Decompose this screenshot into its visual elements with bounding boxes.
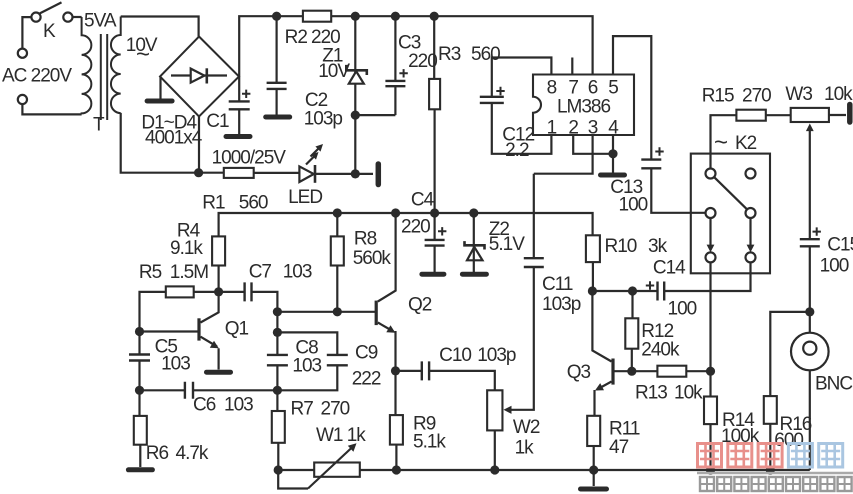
junction node N10 R10/Q3 collector — [588, 286, 597, 295]
capacitor C1 — [229, 101, 250, 109]
W3 wiper line down — [809, 128, 811, 239]
svg-text:103: 103 — [224, 395, 253, 416]
wire node Z1/C3 to C3 bottom — [355, 114, 395, 116]
junction node N13 BNC/R16 — [805, 307, 814, 316]
C4 plus sign — [438, 227, 446, 235]
resistor R2 — [303, 11, 331, 22]
C13 plus sign — [655, 147, 663, 155]
svg-text:8: 8 — [547, 78, 557, 99]
resistor R8 — [331, 236, 344, 265]
transformer T secondary winding — [111, 17, 121, 114]
junction node N5 C7/C8 — [273, 307, 282, 316]
Q3 base wire — [613, 370, 632, 372]
W1 wiper loop wire — [278, 470, 308, 489]
relay K2 left actuator line — [709, 218, 711, 248]
wire R6 to ground — [139, 445, 141, 467]
wire node N13 to BNC — [809, 312, 811, 333]
resistor R6 — [134, 416, 147, 445]
wire R13 to node N12 — [686, 370, 710, 372]
wire node N11 to R13 — [632, 370, 658, 372]
svg-text:LM386: LM386 — [557, 97, 611, 118]
svg-text:270: 270 — [742, 85, 771, 106]
wire C8 to node N7 — [276, 365, 278, 390]
junction node N8 C9 branch — [273, 328, 282, 337]
wire mid rail R4 to R10 — [219, 213, 593, 236]
zener Z2 triangle — [467, 247, 483, 260]
svg-text:C1: C1 — [206, 111, 229, 132]
relay K2 contact circle bottom-left — [706, 252, 716, 262]
op-amp U1 LM386 body — [533, 75, 634, 136]
Q1 emitter to ground — [218, 348, 220, 369]
relay K2 body — [691, 154, 770, 274]
ground Q1 emitter — [207, 370, 231, 375]
wire C12 bottom to pin1 — [492, 103, 552, 154]
wire node N12 to R14 — [709, 371, 711, 396]
wire pin2 to pin4 node — [573, 135, 613, 154]
Q1 collector wire — [201, 292, 219, 323]
svg-text:W2: W2 — [513, 417, 540, 438]
watermark underline — [697, 472, 853, 475]
potentiometer W1 body — [314, 463, 360, 477]
wire switch to upper AC terminal — [22, 17, 31, 48]
junction pin4 ground node — [608, 149, 617, 158]
wire R5 to node N4 — [140, 292, 166, 332]
LED triangle — [299, 166, 313, 182]
svg-text:R7: R7 — [291, 399, 314, 420]
svg-text:103p: 103p — [477, 345, 516, 366]
switch K contact circle left — [31, 13, 40, 22]
svg-text:R5: R5 — [139, 262, 162, 283]
resistor R9 — [390, 415, 403, 445]
wire bridge minus to ground — [159, 77, 161, 99]
svg-text:C9: C9 — [355, 343, 378, 364]
svg-text:K: K — [43, 21, 56, 42]
capacitor C15 — [800, 239, 820, 246]
junction bottom rail at R14 — [706, 465, 715, 474]
ground LM386 pin4 — [601, 173, 625, 178]
resistor R1 — [224, 168, 254, 178]
wire LED to node N2 — [316, 173, 355, 175]
wire node N5 to C8 — [276, 312, 278, 355]
junction node N2 LED output — [351, 169, 360, 178]
wire R11 to bottom rail — [593, 446, 595, 470]
resistor R15 — [736, 110, 765, 121]
svg-text:240k: 240k — [641, 340, 680, 361]
svg-text:R1: R1 — [202, 192, 225, 213]
svg-text:BNC: BNC — [815, 374, 852, 395]
capacitor C4 — [425, 240, 445, 246]
svg-text:R3: R3 — [438, 44, 461, 65]
svg-text:560k: 560k — [353, 248, 392, 269]
wire R7 to bottom rail — [277, 443, 279, 470]
wire C14 to relay pin lower right — [664, 262, 750, 291]
resistor R7 — [272, 411, 285, 443]
wire relay top-left pin to R15 — [711, 115, 737, 168]
wire C4 to ground — [434, 246, 436, 272]
wire C15 to node N13 — [809, 246, 811, 312]
junction C2 tap on top rail — [272, 12, 281, 21]
svg-text:R8: R8 — [354, 229, 377, 250]
potentiometer W2 body — [487, 390, 502, 430]
relay K2 right actuator line — [749, 218, 751, 248]
wire R1 to LED — [254, 172, 300, 174]
svg-text:R15: R15 — [702, 85, 734, 106]
wire node Z1/C3 down to node N2 — [354, 115, 356, 174]
svg-text:K2: K2 — [735, 133, 757, 154]
wire C2 to ground — [276, 89, 278, 115]
junction C4 tap on mid rail — [430, 208, 439, 217]
W3 wiper arrowhead — [806, 124, 814, 132]
svg-text:5: 5 — [608, 78, 618, 99]
svg-text:100: 100 — [668, 299, 697, 320]
wire pin3 to C11 — [534, 135, 593, 174]
resistor R10 — [586, 235, 600, 262]
svg-text:103p: 103p — [304, 109, 343, 130]
transistor Q1 base bar — [197, 318, 200, 340]
wire C7 to node N5 — [252, 292, 278, 312]
LED arrow 2 head — [315, 144, 323, 152]
junction C3 tap on top rail — [391, 12, 400, 21]
svg-text:1.5M: 1.5M — [170, 262, 208, 283]
svg-text:W1: W1 — [316, 425, 343, 446]
U1 pin 7 stub — [571, 58, 573, 75]
svg-text:6: 6 — [588, 78, 598, 99]
relay K2 contact circle top-left — [706, 169, 716, 179]
bridge rectifier D1-D4 diamond — [160, 37, 239, 117]
relay K2 contact circle top-right — [746, 169, 756, 179]
Q1 emitter wire — [201, 337, 218, 347]
capacitor C10 — [422, 361, 429, 380]
relay K2 left actuator arrowhead — [707, 245, 715, 253]
switch K lever — [40, 2, 62, 13]
svg-text:C7: C7 — [249, 262, 272, 283]
wire C13 to relay K2 pin — [651, 168, 705, 213]
junction bottom rail at R7/W1 — [274, 465, 283, 474]
svg-text:1k: 1k — [347, 425, 367, 446]
wire mid rail to C4 — [434, 213, 436, 240]
junction node N7 C6/C8/R7 — [273, 386, 282, 395]
wire node N6 to R6 — [138, 390, 140, 416]
svg-text:LED: LED — [288, 187, 322, 208]
Q2 emitter arrowhead — [386, 325, 395, 333]
svg-text:100: 100 — [619, 195, 648, 216]
wire W2 bottom to rail — [494, 430, 496, 470]
zener Z1 cathode bar with wings — [346, 65, 367, 75]
capacitor C9 — [327, 355, 348, 365]
capacitor C5 — [129, 355, 150, 361]
svg-text:C14: C14 — [653, 258, 686, 279]
wire mid rail corner down is part of rail; R10 box below — [592, 262, 594, 291]
capacitor C2 — [267, 83, 287, 89]
wire R8 top — [336, 213, 338, 236]
svg-text:3k: 3k — [648, 236, 668, 257]
junction node N4 Q1 base — [135, 327, 144, 336]
svg-text:220: 220 — [401, 216, 430, 237]
junction node N9 Q2 emitter — [391, 366, 400, 375]
wire pin8 to C12 top — [492, 58, 552, 97]
Q2 collector wire — [378, 213, 396, 302]
ground R6 — [128, 467, 152, 472]
svg-text:C10: C10 — [439, 345, 471, 366]
wire node N5 to Q2 base — [277, 311, 375, 313]
terminal output right edge — [847, 105, 853, 123]
junction R8 tap on mid rail — [333, 208, 342, 217]
wire R14 to bottom rail — [709, 424, 711, 470]
capacitor C7 — [245, 282, 252, 301]
junction Z2 tap on mid rail — [469, 208, 478, 217]
wire lower AC terminal to transformer primary bottom — [22, 104, 81, 114]
junction node N6 — [135, 386, 144, 395]
wire bridge AC2 down to node N1 — [198, 117, 200, 173]
svg-text:7: 7 — [568, 78, 578, 99]
resistor R3 — [429, 79, 440, 109]
junction R12 top — [628, 286, 637, 295]
wire W3 to output terminal — [829, 114, 846, 116]
AC input terminal upper — [18, 49, 27, 58]
junction node N12 R13/R14/relay — [706, 367, 715, 376]
bottom rail — [278, 469, 810, 471]
Q3 emitter arrowhead — [595, 383, 604, 390]
wire node N2 to terminal — [355, 173, 373, 175]
wire node N3 to C7 — [219, 291, 245, 293]
W2 wiper arrowhead — [504, 406, 512, 414]
resistor R14 — [704, 397, 717, 425]
potentiometer W3 body — [791, 108, 829, 122]
watermark glyphs line 1 — [698, 444, 843, 468]
LED arrow 1 head — [311, 152, 319, 160]
BNC connector outer circle — [791, 333, 829, 371]
bridge internal diode triangle — [191, 69, 205, 83]
wire node N9 to C10 — [396, 370, 422, 372]
svg-text:C15: C15 — [827, 234, 853, 255]
svg-text:Q2: Q2 — [408, 295, 432, 316]
svg-text:9.1k: 9.1k — [170, 238, 203, 259]
svg-text:T: T — [93, 115, 105, 136]
wire relay lower-left pin down to node N12 — [709, 262, 711, 371]
wire C5 to node N6 — [138, 361, 140, 391]
svg-text:~: ~ — [714, 129, 727, 156]
wire C3 down — [394, 86, 396, 115]
LED arrow 1 shaft — [306, 155, 316, 165]
Q3 emitter wire — [597, 382, 612, 390]
capacitor C3 — [385, 81, 405, 86]
wire top rail to C3 — [394, 16, 396, 81]
resistor R16 — [764, 396, 777, 424]
svg-text:47: 47 — [609, 437, 629, 458]
wire R12 to node N11 — [631, 349, 633, 372]
wire R9 to bottom rail — [395, 445, 397, 470]
wire node N4 to C5 — [138, 332, 140, 355]
svg-text:R13: R13 — [635, 383, 667, 404]
Q1 emitter arrowhead — [210, 341, 219, 349]
svg-text:2.2: 2.2 — [505, 140, 529, 161]
wire node N10 to C14 line — [592, 290, 657, 292]
wire node N7 to R7 — [276, 390, 278, 411]
terminal output near LED — [376, 164, 382, 185]
wire R15 to W3 — [766, 114, 791, 116]
svg-text:103: 103 — [292, 356, 321, 377]
wire R12 vertical — [631, 291, 633, 318]
junction bottom rail at R16 — [766, 465, 775, 474]
wire bridge plus up to top rail and to R2 — [239, 16, 303, 76]
wire top rail R2 to LM386 pin6 — [331, 16, 592, 74]
junction Q2 collector tap on mid rail — [391, 208, 400, 217]
svg-text:5.1V: 5.1V — [489, 234, 525, 255]
LED cathode bar — [314, 165, 317, 183]
wire R4 to node N3 — [218, 266, 220, 292]
C3 plus sign — [399, 69, 407, 77]
ground C1 — [226, 134, 250, 139]
resistor R4 — [212, 236, 225, 265]
wire node N1 to R1 — [199, 172, 224, 174]
svg-text:103: 103 — [161, 353, 190, 374]
svg-text:100: 100 — [820, 256, 849, 277]
svg-text:R6: R6 — [146, 443, 169, 464]
Q1 base wire — [140, 330, 200, 332]
Q2 emitter wire — [378, 323, 394, 332]
junction Z1 tap on top rail — [351, 12, 360, 21]
C14 plus sign — [646, 281, 654, 289]
junction bottom rail at R9 — [392, 465, 401, 474]
AC input terminal lower — [18, 95, 27, 104]
W1 wiper arrowhead — [348, 443, 357, 452]
wire mid rail to Z2 and down — [473, 213, 475, 272]
svg-text:4001x4: 4001x4 — [145, 128, 203, 149]
ground bridge — [147, 99, 172, 104]
BNC connector inner circle — [803, 342, 816, 355]
transistor Q2 base bar — [375, 301, 378, 326]
C12 plus sign — [496, 87, 504, 95]
resistor R13 — [657, 366, 686, 377]
svg-text:560: 560 — [471, 44, 500, 65]
resistor R5 — [166, 286, 194, 297]
W1 wiper diagonal — [308, 447, 353, 489]
wire C9 to node N7 — [277, 365, 337, 390]
svg-text:C11: C11 — [542, 274, 573, 295]
svg-text:220: 220 — [408, 51, 437, 72]
C1 plus sign — [242, 90, 250, 98]
svg-text:W3: W3 — [785, 84, 812, 105]
svg-text:222: 222 — [352, 369, 381, 390]
wire secondary bottom to node N1 — [121, 113, 199, 173]
Q2 emitter down to node N9 — [394, 331, 396, 371]
resistor R11 — [587, 416, 600, 446]
bottom rail ground stub — [593, 470, 595, 486]
wire BNC to bottom rail — [809, 370, 811, 470]
wire R3 to mid rail — [434, 109, 436, 213]
junction bottom rail at W2 — [490, 465, 499, 474]
transformer T primary winding — [82, 17, 92, 114]
relay K2 contact circle bottom-right — [746, 252, 756, 262]
Z2 triangle stem — [473, 241, 475, 260]
relay K2 right actuator arrowhead — [747, 245, 755, 253]
wire secondary top to bridge AC1 — [121, 17, 199, 37]
svg-text:5.1k: 5.1k — [413, 432, 446, 453]
resistor R12 — [625, 318, 638, 348]
wire pin3 line down to C11 — [533, 174, 535, 259]
capacitor C8 — [267, 355, 288, 365]
W2 wiper wire from C11 — [506, 267, 534, 410]
junction R3 tap on top rail — [430, 12, 439, 21]
wire node N8 to C9 — [277, 332, 337, 355]
capacitor C13 — [641, 160, 661, 169]
svg-text:R2: R2 — [285, 27, 308, 48]
wire C10 to W2 top — [429, 371, 495, 390]
zener Z2 cathode bar with wings — [465, 241, 485, 249]
svg-text:C6: C6 — [193, 395, 216, 416]
LED arrow 2 shaft — [311, 147, 321, 157]
junction node N1 bridge AC2 — [194, 168, 203, 177]
wire R8 bottom — [336, 266, 338, 312]
junction R8 bottom on base line — [333, 307, 342, 316]
ground C2 — [266, 115, 290, 120]
transistor Q3 base bar — [611, 359, 614, 385]
junction node Z1/C3 — [351, 111, 360, 120]
svg-text:10k: 10k — [674, 383, 703, 404]
svg-text:Q3: Q3 — [567, 362, 591, 383]
junction bottom rail at R11 — [589, 465, 598, 474]
ground bottom rail — [581, 487, 607, 492]
junction node N11 Q3 base — [627, 367, 636, 376]
svg-text:4.7k: 4.7k — [176, 443, 209, 464]
capacitor C6 — [185, 382, 193, 399]
wire node N9 to R9 — [394, 371, 396, 415]
zener Z1 triangle — [349, 71, 364, 83]
svg-text:R10: R10 — [605, 236, 637, 257]
wire R16 to bottom rail — [769, 424, 771, 470]
svg-text:Q1: Q1 — [225, 319, 249, 340]
svg-text:103: 103 — [283, 262, 312, 283]
svg-text:270: 270 — [321, 399, 350, 420]
svg-text:103p: 103p — [542, 294, 581, 315]
switch K contact circle right — [63, 13, 72, 22]
wire C1 to ground — [238, 109, 240, 134]
wire pin4 node to ground — [612, 154, 614, 173]
wire node N3 to R5 — [194, 291, 219, 293]
svg-text:560: 560 — [239, 192, 268, 213]
wire switch to transformer primary top — [73, 16, 82, 18]
Q3 emitter down to R11 — [593, 390, 595, 416]
bridge internal diode line — [171, 74, 227, 76]
ground C4 — [422, 272, 444, 277]
wire node N6 to C6 — [140, 389, 185, 391]
svg-text:5VA: 5VA — [84, 11, 117, 32]
wire C6 to node N7 — [193, 389, 277, 391]
transformer T core — [101, 34, 107, 120]
svg-text:C4: C4 — [411, 189, 435, 210]
capacitor C12 — [480, 97, 504, 103]
wire bridge plus down to C1 — [238, 77, 240, 102]
wire pin5 loop to C13 — [613, 36, 651, 160]
bridge internal diode cathode bar — [206, 68, 209, 83]
svg-text:1000/25V: 1000/25V — [212, 148, 287, 169]
svg-text:AC 220V: AC 220V — [2, 66, 72, 87]
relay K2 contact circle mid-left — [706, 208, 716, 218]
wire Z1 vertical — [354, 16, 356, 115]
svg-text:1k: 1k — [515, 437, 535, 458]
svg-text:10k: 10k — [824, 84, 853, 105]
Q3 collector wire — [592, 291, 611, 362]
wire node N13 to R16 — [770, 312, 810, 396]
junction node N3 Q1 collector — [214, 287, 223, 296]
relay K2 armature diagonal — [714, 177, 747, 209]
wire top rail to R3 — [433, 16, 435, 79]
watermark glyphs line 2 — [700, 477, 852, 491]
svg-text:~: ~ — [136, 41, 149, 68]
C15 plus sign — [813, 227, 821, 235]
svg-text:10V: 10V — [318, 61, 350, 82]
capacitor C14 — [658, 282, 665, 301]
